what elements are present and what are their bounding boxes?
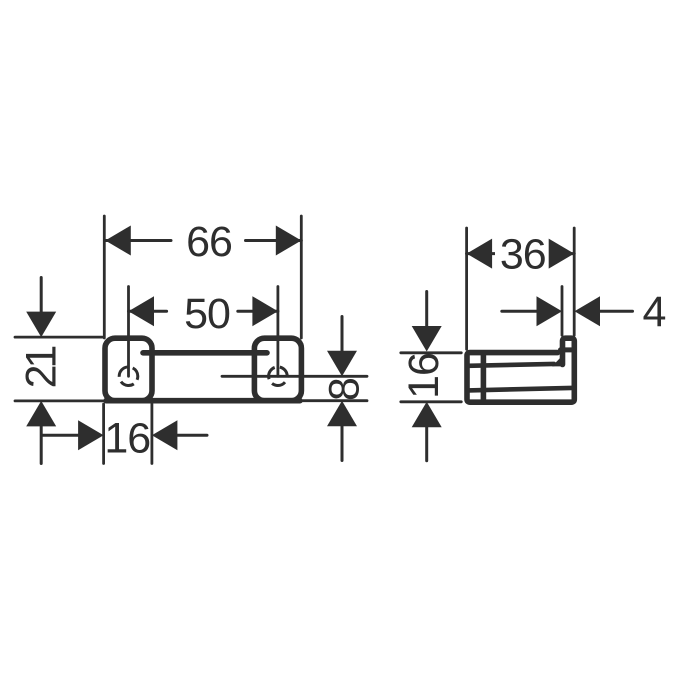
dim 66: extension line right: [300, 216, 303, 338]
left view: vertical centerline left: [127, 287, 130, 377]
dim 36: arrowhead left: [467, 239, 493, 269]
dim 36: extension line right: [573, 228, 576, 335]
dim 66: arrowhead left: [105, 226, 131, 256]
dim 36: label background: [495, 236, 551, 271]
dim 21: extension line bottom: [15, 399, 103, 402]
left view: screw circle right (dashed): [269, 367, 288, 386]
dim 16 left: arrowhead left: [78, 420, 104, 450]
dim 50: label: [184, 290, 230, 338]
dim 16 left: extension line right: [150, 404, 153, 464]
svg-text:16: 16: [400, 353, 448, 399]
dim 66: extension line left: [103, 216, 106, 338]
dim 16 right: label (rotated): [400, 353, 448, 399]
svg-text:21: 21: [18, 347, 66, 389]
left view: wall plate left (rounded square): [105, 338, 152, 401]
dim 8: tail line top: [341, 317, 344, 352]
right view: lip base chamfer: [552, 356, 563, 367]
dim 66: arrowhead right: [276, 226, 302, 256]
dim 16 left: extension line left: [102, 404, 105, 464]
right view: inner vertical line (plate face): [481, 353, 487, 401]
dim 66: dimension line: [105, 239, 301, 242]
left view: screw circle left (dashed): [119, 367, 138, 386]
dim 4: arrowhead right (points left): [575, 296, 601, 326]
dim 36: extension line left: [465, 228, 468, 349]
dim 21: tail line bottom: [40, 426, 43, 463]
left view: bar bottom edge: [106, 398, 300, 404]
right view: inner bottom line: [468, 388, 572, 391]
dim 21: arrowhead up: [26, 401, 56, 427]
dim 16 right: extension line bottom: [401, 400, 462, 403]
left view: wall plate right (rounded square): [254, 338, 301, 401]
dim 16 right: tail line top: [425, 292, 428, 327]
dim 16 right: arrowhead up: [412, 402, 442, 428]
dim 16 right: extension line top: [401, 351, 462, 354]
dim 16 right: arrowhead down: [412, 326, 442, 352]
dim 4: extension line left: [561, 287, 564, 336]
svg-text:50: 50: [184, 290, 230, 338]
dim 21: label (rotated): [18, 347, 66, 389]
svg-text:36: 36: [500, 230, 546, 278]
dim 21: arrowhead down: [26, 312, 56, 338]
dim 16 left: label: [104, 415, 150, 463]
dim 21: extension line top: [15, 336, 103, 339]
dim 8: bottom extension line: [303, 399, 367, 402]
svg-text:16: 16: [104, 415, 150, 463]
dim 8: label (rotated): [321, 377, 369, 401]
dim 50: arrowhead right: [252, 296, 278, 326]
dim 8: arrowhead up: [327, 401, 357, 427]
svg-text:4: 4: [643, 288, 667, 336]
dim 4: tail line left: [502, 310, 537, 313]
dim 16 left: tail line left: [42, 434, 79, 437]
dim 16 left: arrowhead right: [152, 420, 178, 450]
dim 50: dimension line: [129, 310, 278, 313]
dim 50: arrowhead left: [129, 296, 155, 326]
dim 21: tail line top: [40, 278, 43, 312]
dim 16 left: tail line right: [177, 434, 207, 437]
dim 36: arrowhead right: [549, 239, 575, 269]
left view: horizontal centerline: [222, 375, 367, 378]
left view: vertical centerline right: [276, 287, 279, 377]
dim 8: tail line bottom: [341, 426, 344, 460]
dim 36: dimension line: [467, 252, 575, 255]
dim 66: label: [186, 218, 232, 266]
dim 4: label: [643, 288, 667, 336]
dim 4: tail line right: [600, 310, 633, 313]
svg-text:66: 66: [186, 218, 232, 266]
dim 36: label: [500, 230, 546, 278]
left view: bar top edge: [143, 350, 267, 356]
svg-text:8: 8: [321, 377, 369, 401]
right view: inner top surface line: [468, 364, 554, 366]
right view: lip inner bottom: [561, 347, 573, 352]
dim 8: arrowhead down: [327, 351, 357, 377]
dim 16 right: tail line bottom: [425, 427, 428, 460]
right view: outer contour with lip: [467, 338, 574, 402]
dim 4: arrowhead left (points right): [537, 296, 563, 326]
